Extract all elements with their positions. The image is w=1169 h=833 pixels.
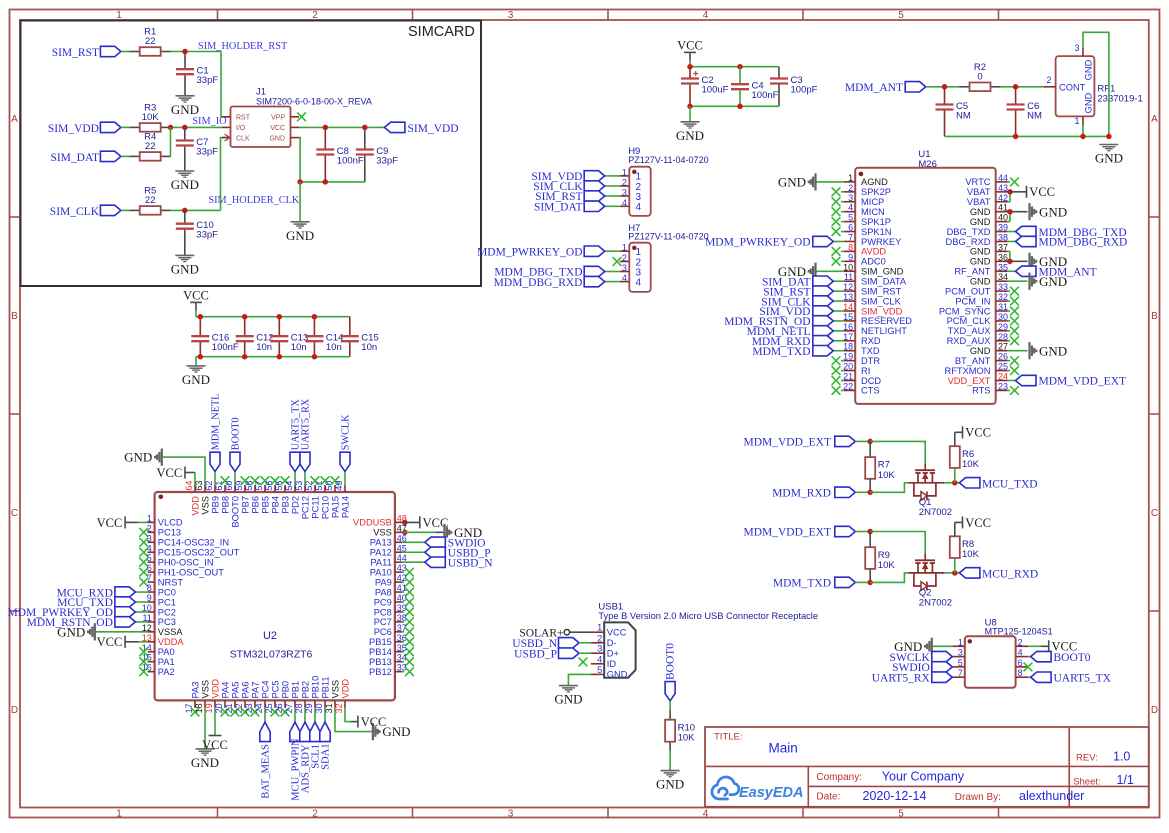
svg-text:1.0: 1.0 — [1113, 750, 1130, 764]
U2 pin 41 PA8 — [395, 591, 402, 593]
svg-text:10n: 10n — [256, 342, 272, 353]
junction — [242, 354, 248, 360]
capacitor C12 — [244, 317, 246, 337]
U2 pin 36 PB15 — [395, 641, 402, 643]
port SIM_CLK — [833, 300, 844, 302]
USB1 pin 3 D+ — [591, 652, 604, 654]
svg-text:RF_ANT: RF_ANT — [954, 267, 990, 277]
resistor R9 — [869, 532, 871, 548]
U2 pin 7 NRST — [148, 581, 155, 583]
ground flag — [931, 638, 933, 655]
svg-text:MDM_PWRKEY_OD: MDM_PWRKEY_OD — [477, 246, 582, 258]
svg-text:SIM7200-6-0-18-00-X_REVA: SIM7200-6-0-18-00-X_REVA — [256, 96, 372, 106]
svg-text:3: 3 — [622, 263, 627, 273]
port SIM_RST — [833, 290, 844, 292]
U2 pin 54 PD2 — [294, 485, 296, 492]
svg-text:REV:: REV: — [1076, 753, 1098, 764]
resistor R2 — [960, 86, 970, 88]
junction — [952, 480, 958, 486]
port MDM_DBG_TXD — [1008, 231, 1016, 233]
svg-text:Main: Main — [769, 741, 798, 756]
port MDM_DBG_RXD — [605, 281, 620, 283]
wire — [1001, 86, 1044, 88]
svg-text:SIM_HOLDER_RST: SIM_HOLDER_RST — [198, 41, 288, 52]
wire pin3 to gnd rail — [1083, 32, 1109, 136]
svg-text:NETLIGHT: NETLIGHT — [861, 326, 907, 336]
transistor Q1 2N7002 — [915, 469, 935, 471]
svg-text:VBAT: VBAT — [967, 197, 991, 207]
U1 pin 44 VRTC — [996, 181, 1008, 183]
svg-text:28: 28 — [294, 703, 304, 713]
U2 pin 27 PB1 — [294, 700, 296, 707]
wire VCC net — [299, 126, 384, 128]
port MCU_TXD — [959, 478, 980, 488]
U2 pin 63 VSS — [204, 485, 206, 492]
svg-text:6: 6 — [1018, 658, 1023, 668]
wire to J1 CLK — [221, 138, 231, 211]
svg-text:PB2: PB2 — [300, 681, 310, 699]
svg-text:PA1: PA1 — [158, 657, 175, 667]
wire drain — [945, 572, 960, 574]
svg-text:PB4: PB4 — [270, 496, 280, 514]
wire — [335, 708, 372, 732]
U2 pin 29 PB10 — [314, 700, 316, 707]
U1 pin 10 SIM_GND — [844, 270, 855, 272]
U1 pin 3 MICP — [844, 201, 855, 203]
U1 pin 37 GND — [996, 250, 1008, 252]
U1 pin 25 RFTXMON — [996, 370, 1008, 372]
svg-text:PB5: PB5 — [260, 496, 270, 514]
wire — [669, 701, 671, 711]
port MDM_RXD — [833, 340, 844, 342]
svg-text:53: 53 — [294, 481, 304, 491]
svg-text:GND: GND — [1039, 274, 1067, 289]
H9 pin 3 SIM_RST — [620, 195, 630, 197]
RF1 pin 3 top — [1082, 48, 1084, 57]
junction — [182, 208, 188, 214]
svg-text:PA12: PA12 — [370, 548, 392, 558]
junction — [297, 179, 303, 185]
svg-text:63: 63 — [194, 481, 204, 491]
U1 pin 14 SIM_VDD — [844, 310, 855, 312]
svg-text:SDA1: SDA1 — [321, 743, 332, 770]
svg-text:10K: 10K — [962, 459, 980, 470]
port SWDIO — [932, 662, 953, 672]
svg-text:SIM_IO: SIM_IO — [192, 116, 227, 127]
U2 pin 35 PB14 — [395, 651, 402, 653]
connector J1 — [231, 107, 291, 148]
U2 pin 52 PC11 — [314, 485, 316, 492]
svg-text:PB1: PB1 — [290, 681, 300, 699]
svg-text:PA8: PA8 — [375, 587, 392, 597]
svg-text:PA5: PA5 — [230, 682, 240, 699]
svg-text:11: 11 — [844, 272, 853, 282]
port SDA1 — [324, 708, 326, 722]
svg-text:PA15: PA15 — [330, 496, 340, 518]
svg-text:SIM_VDD: SIM_VDD — [48, 123, 99, 135]
U1 pin 21 DCD — [844, 380, 855, 382]
svg-text:PC0: PC0 — [158, 587, 176, 597]
U2 pin 20 PA4 — [224, 700, 226, 707]
svg-text:100nF: 100nF — [212, 342, 239, 353]
port MDM_PWRKEY_OD — [605, 250, 620, 252]
ground — [175, 254, 194, 256]
power VCC flag — [955, 431, 963, 433]
svg-text:RXD_AUX: RXD_AUX — [947, 336, 991, 346]
port BOOT0 — [234, 471, 236, 485]
connector RF1 — [1056, 56, 1095, 116]
svg-text:SIM_GND: SIM_GND — [861, 267, 904, 277]
U2 pin 12 VSSA — [148, 631, 155, 633]
svg-text:BOOT0: BOOT0 — [665, 643, 677, 680]
U2 pin 17 PA3 — [194, 700, 196, 707]
svg-text:PC4: PC4 — [260, 680, 270, 698]
ground flag — [1028, 342, 1030, 359]
wire — [855, 440, 870, 442]
svg-text:SIM_HOLDER_CLK: SIM_HOLDER_CLK — [208, 195, 300, 206]
svg-text:VCC: VCC — [965, 426, 991, 440]
svg-text:4: 4 — [703, 10, 709, 21]
svg-text:VCC: VCC — [270, 125, 285, 132]
svg-text:100uF: 100uF — [702, 85, 729, 96]
svg-text:ADC0: ADC0 — [861, 257, 886, 267]
resistor R4 — [130, 155, 140, 157]
U2 pin 18 VSS — [204, 700, 206, 707]
capacitor C5 — [944, 87, 946, 105]
U1 pin 23 RTS — [996, 389, 1008, 391]
junction — [867, 490, 873, 496]
H7 pin 1 — [620, 250, 630, 252]
wire — [1008, 280, 1028, 282]
svg-text:VCC: VCC — [607, 628, 627, 638]
svg-text:62: 62 — [204, 481, 214, 491]
EasyEDA logo — [712, 777, 739, 799]
capacitor C8 — [324, 127, 326, 149]
svg-text:3: 3 — [958, 648, 963, 658]
svg-text:GND: GND — [1084, 59, 1094, 80]
svg-text:31: 31 — [324, 703, 334, 713]
U2 pin 38 PC7 — [395, 621, 402, 623]
junction — [323, 125, 329, 130]
svg-text:PCM_IN: PCM_IN — [955, 296, 990, 306]
svg-text:10K: 10K — [878, 470, 896, 481]
svg-text:MCU_TXD: MCU_TXD — [982, 478, 1038, 490]
U2 pin 16 PA2 — [148, 671, 155, 673]
svg-text:2: 2 — [622, 178, 627, 188]
junction — [182, 49, 188, 55]
power VCC flag — [124, 516, 126, 528]
svg-text:26: 26 — [998, 352, 1008, 362]
ground — [661, 770, 680, 772]
svg-text:19: 19 — [204, 703, 214, 713]
svg-text:PB7: PB7 — [240, 496, 250, 514]
capacitor C10 — [184, 210, 186, 223]
svg-text:SIMCARD: SIMCARD — [408, 24, 475, 40]
junction — [1080, 134, 1086, 140]
svg-text:PA7: PA7 — [250, 682, 260, 699]
svg-text:VCC: VCC — [156, 466, 182, 480]
svg-text:B: B — [11, 311, 18, 322]
U2 pin 31 VSS — [334, 700, 336, 707]
U1 pin 29 TXD_AUX — [996, 330, 1008, 332]
svg-text:TXD: TXD — [861, 346, 880, 356]
svg-text:MDM_PWRKEY_OD: MDM_PWRKEY_OD — [705, 237, 810, 249]
svg-text:VCC: VCC — [361, 715, 387, 729]
ground flag — [372, 723, 374, 740]
svg-text:GND: GND — [656, 777, 684, 792]
ground flag — [1028, 203, 1030, 220]
wire — [171, 126, 223, 128]
svg-text:GND: GND — [1039, 343, 1067, 358]
power VCC flag — [1028, 645, 1041, 647]
U2 pin 4 PC15-OSC32_OUT — [148, 551, 155, 553]
wire to source — [870, 483, 908, 493]
svg-text:PC10: PC10 — [320, 496, 330, 519]
svg-text:MDM_VDD_EXT: MDM_VDD_EXT — [743, 527, 831, 539]
U2 pin 40 PC9 — [395, 601, 402, 603]
port MCU_PWPIN — [294, 708, 296, 722]
U2 pin 22 PA6 — [244, 700, 246, 707]
svg-text:22: 22 — [145, 195, 156, 206]
ground flag — [1028, 253, 1030, 270]
wire pin1 down — [1082, 125, 1084, 136]
svg-text:52: 52 — [304, 481, 314, 491]
wire — [345, 708, 351, 722]
svg-text:GND: GND — [171, 102, 199, 117]
wire — [171, 51, 221, 53]
U1 pin 2 SPK2P — [844, 191, 855, 193]
svg-text:GND: GND — [970, 277, 991, 287]
svg-text:24: 24 — [998, 372, 1008, 382]
U2 pin 44 PA11 — [395, 561, 402, 563]
svg-text:VCC: VCC — [97, 516, 123, 530]
svg-text:PC3: PC3 — [158, 617, 176, 627]
junction — [687, 104, 693, 110]
junction — [277, 354, 283, 360]
wire — [121, 209, 130, 211]
svg-text:VDD: VDD — [340, 679, 350, 699]
svg-text:SIM_CLK: SIM_CLK — [50, 206, 100, 218]
U2 pin 28 PB2 — [304, 700, 306, 707]
svg-text:5: 5 — [898, 10, 904, 21]
svg-text:PB15: PB15 — [369, 637, 392, 647]
wire to source — [870, 573, 908, 583]
svg-text:PC8: PC8 — [374, 607, 392, 617]
svg-text:2N7002: 2N7002 — [919, 507, 952, 518]
svg-text:VSS: VSS — [200, 680, 210, 699]
svg-text:58: 58 — [244, 481, 254, 491]
junction — [323, 179, 329, 185]
junction — [952, 570, 958, 576]
U1 pin 42 VBAT — [996, 201, 1008, 203]
U2 pin 49 PA14 — [344, 485, 346, 492]
junction — [867, 580, 873, 586]
svg-text:44: 44 — [998, 173, 1008, 183]
power VCC flag — [124, 636, 126, 648]
U1 pin 35 RF_ANT — [996, 270, 1008, 272]
IC U2 STM32L073RZT6 — [155, 492, 395, 700]
U1 pin 15 RESERVED — [844, 320, 855, 322]
U2 pin 33 PB12 — [395, 671, 402, 673]
svg-text:2: 2 — [597, 633, 602, 643]
U1 pin 17 RXD — [844, 340, 855, 342]
wire — [195, 357, 197, 366]
svg-text:1: 1 — [622, 167, 627, 177]
port MDM_RSTN_OD — [833, 320, 844, 322]
port SWDIO — [402, 541, 425, 543]
U2 pin 62 PB9 — [214, 485, 216, 492]
svg-text:VCC: VCC — [1029, 185, 1055, 199]
port SIM_VDD right — [384, 122, 405, 132]
power VCC flag — [1026, 186, 1028, 198]
junction — [1007, 189, 1013, 195]
svg-text:PA2: PA2 — [158, 667, 175, 677]
port SWCLK — [932, 651, 953, 661]
svg-text:MDM_DBG_RXD: MDM_DBG_RXD — [1039, 237, 1128, 249]
capacitor C1 — [184, 52, 186, 70]
svg-text:4: 4 — [597, 654, 602, 664]
power VCC flag — [184, 467, 186, 479]
U1 pin 31 PCM_SYNC — [996, 310, 1008, 312]
svg-text:GND: GND — [970, 346, 991, 356]
junction — [1007, 209, 1013, 215]
svg-text:42: 42 — [998, 193, 1008, 203]
svg-text:MDM_VDD_EXT: MDM_VDD_EXT — [1039, 376, 1127, 388]
svg-text:SPK1N: SPK1N — [861, 227, 892, 237]
wire — [121, 126, 130, 128]
capacitor C13 — [278, 317, 280, 337]
U1 pin 13 SIM_CLK — [844, 300, 855, 302]
U2 pin 30 PB11 — [324, 700, 326, 707]
svg-text:40: 40 — [998, 213, 1008, 223]
svg-text:DBG_TXD: DBG_TXD — [947, 227, 991, 237]
junction — [942, 84, 948, 90]
port UART5_TX — [294, 471, 296, 485]
U2 pin 48 VDDUSB — [395, 521, 402, 523]
no-connect VPP — [297, 112, 306, 121]
svg-text:10: 10 — [843, 262, 853, 272]
junction — [312, 354, 318, 360]
svg-text:RST: RST — [236, 115, 251, 122]
svg-text:PB12: PB12 — [369, 667, 392, 677]
svg-text:GND: GND — [171, 261, 199, 276]
U2 pin 51 PC10 — [324, 485, 326, 492]
power VCC — [684, 51, 696, 53]
svg-text:61: 61 — [214, 481, 224, 491]
U1 pin 43 VBAT — [996, 191, 1008, 193]
svg-text:DTR: DTR — [861, 356, 880, 366]
svg-text:4: 4 — [622, 198, 627, 208]
junction — [242, 314, 248, 320]
svg-text:10K: 10K — [142, 112, 160, 123]
svg-text:RI: RI — [861, 366, 870, 376]
svg-text:RTS: RTS — [972, 386, 990, 396]
svg-text:AVDD: AVDD — [861, 247, 886, 257]
svg-text:32: 32 — [998, 292, 1008, 302]
power VCC flag — [209, 735, 222, 737]
svg-text:SIM_CLK: SIM_CLK — [861, 296, 902, 306]
svg-text:3: 3 — [622, 188, 627, 198]
U2 pin 34 PB13 — [395, 661, 402, 663]
H7 pin 4 — [620, 281, 630, 283]
svg-text:PA3: PA3 — [190, 682, 200, 699]
junction — [737, 64, 743, 70]
U2 pin 59 PB7 — [244, 485, 246, 492]
svg-text:PC11: PC11 — [310, 496, 320, 519]
U2 pin 11 PC3 — [148, 621, 155, 623]
U2 pin 53 PC12 — [304, 485, 306, 492]
svg-text:36: 36 — [998, 252, 1008, 262]
svg-text:CTS: CTS — [861, 386, 880, 396]
junction — [1013, 84, 1019, 90]
svg-text:SIM_DAT: SIM_DAT — [50, 152, 99, 164]
port BOOT0 vertical — [665, 682, 675, 701]
RF1 pin 2 stub — [1044, 86, 1056, 88]
svg-text:4: 4 — [703, 808, 709, 819]
svg-text:SIM_VDD: SIM_VDD — [861, 306, 903, 316]
svg-text:UART5_RX: UART5_RX — [872, 672, 931, 684]
svg-text:PC9: PC9 — [374, 597, 392, 607]
U1 pin 32 PCM_IN — [996, 300, 1008, 302]
U1 pin 6 SPK1N — [844, 231, 855, 233]
svg-text:ID: ID — [607, 659, 617, 669]
capacitor C14 — [313, 317, 315, 337]
junction — [362, 125, 368, 130]
U2 pin 58 PB6 — [254, 485, 256, 492]
svg-text:VPP: VPP — [271, 115, 285, 122]
svg-text:6: 6 — [848, 223, 853, 233]
junction — [198, 354, 204, 360]
svg-text:60: 60 — [224, 481, 234, 491]
svg-text:10n: 10n — [361, 342, 377, 353]
svg-text:D+: D+ — [607, 649, 619, 659]
svg-text:VCC: VCC — [677, 39, 703, 53]
junction — [277, 314, 283, 320]
U2 pin 23 PA7 — [254, 700, 256, 707]
U1 pin 34 GND — [996, 280, 1008, 282]
svg-text:5: 5 — [848, 213, 853, 223]
J1 CLK input arrow — [225, 134, 231, 141]
svg-text:12: 12 — [843, 282, 853, 292]
U2 pin 19 VDD — [214, 700, 216, 707]
svg-text:PC2: PC2 — [158, 607, 176, 617]
svg-text:GND: GND — [607, 670, 628, 680]
svg-text:1/1: 1/1 — [1117, 773, 1134, 787]
svg-text:DCD: DCD — [861, 376, 881, 386]
svg-text:VSS: VSS — [373, 528, 392, 538]
svg-text:3: 3 — [1074, 43, 1079, 53]
U1 pin 1 AGND — [844, 181, 855, 183]
svg-text:VDDA: VDDA — [158, 637, 185, 647]
U2 pin 45 PA12 — [395, 551, 402, 553]
svg-text:33: 33 — [998, 282, 1008, 292]
U8 pin 1 — [952, 645, 965, 647]
svg-text:PC1: PC1 — [158, 597, 176, 607]
svg-text:MDM_TXD: MDM_TXD — [752, 346, 810, 358]
junction — [402, 530, 408, 536]
capacitor C16 — [199, 317, 201, 337]
SIMCARD section box — [21, 21, 482, 287]
port MCU_RXD — [959, 568, 980, 578]
svg-text:PC5: PC5 — [270, 680, 280, 698]
svg-text:2: 2 — [312, 10, 318, 21]
svg-text:MICN: MICN — [861, 207, 885, 217]
ground flag — [94, 623, 96, 640]
svg-text:PA10: PA10 — [370, 567, 392, 577]
svg-text:GND: GND — [1039, 204, 1067, 219]
svg-text:I/O: I/O — [236, 125, 246, 132]
svg-text:PH1-OSC_OUT: PH1-OSC_OUT — [158, 567, 224, 577]
